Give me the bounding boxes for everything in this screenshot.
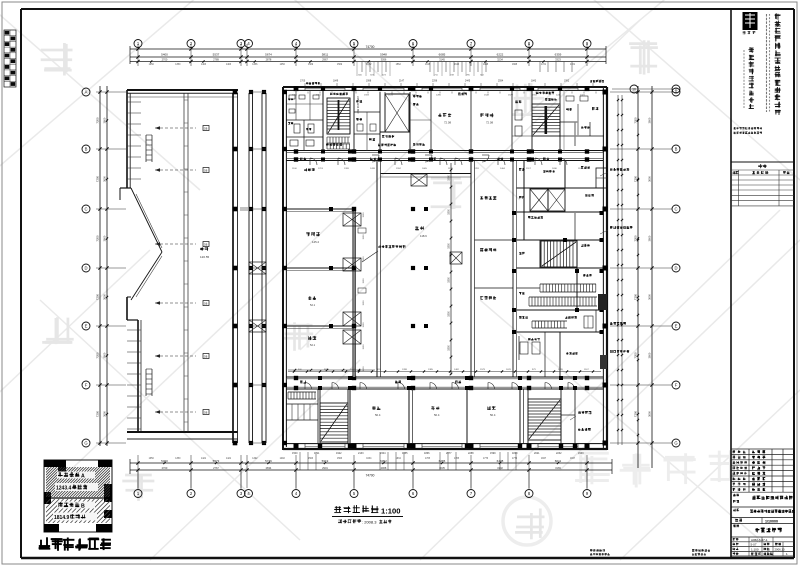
dim chain above corridor B xyxy=(288,369,601,373)
institute name vertical text xyxy=(744,47,754,109)
svg-text:74700: 74700 xyxy=(366,45,375,49)
svg-text:1326: 1326 xyxy=(344,168,350,170)
svg-text:7200: 7200 xyxy=(634,293,638,300)
svg-text:1500: 1500 xyxy=(363,234,365,240)
svg-text:1634: 1634 xyxy=(396,458,402,460)
drawing title cell xyxy=(731,525,794,538)
svg-text:1500: 1500 xyxy=(363,322,365,328)
bottom dimension ticks and numbers xyxy=(136,452,588,488)
svg-text:2767: 2767 xyxy=(213,466,219,470)
svg-text:2344: 2344 xyxy=(380,452,386,455)
svg-text:1776: 1776 xyxy=(512,458,518,460)
svg-text:DB: DB xyxy=(204,244,208,247)
svg-text:1563: 1563 xyxy=(308,458,314,460)
svg-text:2700: 2700 xyxy=(162,466,168,470)
svg-text:1800: 1800 xyxy=(448,345,451,351)
svg-text:3600: 3600 xyxy=(103,411,107,417)
svg-text:1992: 1992 xyxy=(564,81,570,83)
corridor A walls xyxy=(286,151,603,161)
doors corridor A xyxy=(310,155,567,165)
svg-text:1615: 1615 xyxy=(454,64,460,66)
interior dimension chain vertical xyxy=(448,163,453,375)
left wing outer walls xyxy=(120,90,238,439)
svg-text:1213: 1213 xyxy=(318,168,324,170)
svg-text:1404: 1404 xyxy=(500,168,506,170)
svg-text:2700: 2700 xyxy=(162,57,168,61)
svg-text:1855: 1855 xyxy=(412,94,418,96)
svg-text:1241: 1241 xyxy=(556,94,562,96)
dim row under corridor A xyxy=(292,168,583,170)
training rooms east xyxy=(475,161,517,378)
svg-text:1593: 1593 xyxy=(364,94,370,96)
svg-text:1456: 1456 xyxy=(280,64,286,66)
svg-text:1700: 1700 xyxy=(300,81,306,83)
svg-text:B: B xyxy=(675,147,678,152)
svg-text:1094: 1094 xyxy=(350,369,356,371)
svg-text:3102: 3102 xyxy=(497,466,503,470)
svg-text:2834: 2834 xyxy=(266,466,272,470)
svg-text:118.6: 118.6 xyxy=(420,234,427,238)
svg-text:3600: 3600 xyxy=(103,176,107,182)
svg-text:G: G xyxy=(674,441,677,446)
project name cell xyxy=(731,509,795,518)
svg-text:2594: 2594 xyxy=(498,81,504,83)
svg-text:1191: 1191 xyxy=(376,369,381,371)
activity room 2 xyxy=(471,90,512,151)
machine room bottom-right xyxy=(570,411,591,431)
svg-text:7200: 7200 xyxy=(96,410,100,417)
stair S4 east xyxy=(541,241,577,267)
svg-text:3600: 3600 xyxy=(103,235,107,241)
svg-text:2445: 2445 xyxy=(465,81,471,83)
interior leader labels corridor B xyxy=(300,381,461,384)
ac platform blocks on right wall xyxy=(596,168,607,369)
svg-text:1372: 1372 xyxy=(580,94,586,96)
svg-text:1403: 1403 xyxy=(226,64,232,66)
dim text under bottom wall xyxy=(292,452,584,455)
svg-text:5811: 5811 xyxy=(322,53,329,57)
svg-text:5674: 5674 xyxy=(265,53,272,57)
svg-text:1291: 1291 xyxy=(474,168,480,170)
svg-text:1385: 1385 xyxy=(428,369,434,371)
svg-text:1421: 1421 xyxy=(201,458,207,460)
svg-text:72.08: 72.08 xyxy=(444,121,451,125)
svg-text:B: B xyxy=(81,503,85,509)
right dimension chain xyxy=(610,86,672,468)
svg-text:1562: 1562 xyxy=(366,64,372,66)
svg-text:1500: 1500 xyxy=(363,344,365,350)
left wing interior lines xyxy=(127,93,238,432)
svg-text:50.4: 50.4 xyxy=(490,413,496,417)
svg-text:3600: 3600 xyxy=(103,294,107,300)
svg-text:1500: 1500 xyxy=(363,300,365,306)
fire diagram caption xyxy=(39,537,111,551)
svg-text:3600: 3600 xyxy=(648,294,652,300)
stair S1 top-left xyxy=(323,90,360,151)
svg-text:3600: 3600 xyxy=(648,235,652,241)
top band annotation cluster xyxy=(330,93,467,146)
svg-text:1800: 1800 xyxy=(448,277,451,283)
svg-text:1843: 1843 xyxy=(531,81,537,83)
fire zone divider xyxy=(44,497,112,499)
svg-text:1800: 1800 xyxy=(448,175,451,181)
svg-text:1548: 1548 xyxy=(484,94,490,96)
svg-text:1579: 1579 xyxy=(480,369,486,371)
ac platform labels east wall xyxy=(600,168,633,353)
svg-text:2288: 2288 xyxy=(468,452,474,455)
svg-text:1849: 1849 xyxy=(333,81,339,83)
svg-text:6085: 6085 xyxy=(439,53,446,57)
svg-text:2133: 2133 xyxy=(358,452,364,455)
top right corner bubbles xyxy=(612,85,680,93)
svg-text:52.1: 52.1 xyxy=(310,343,316,347)
svg-text:D: D xyxy=(84,266,87,271)
stair S6 bottom-right xyxy=(528,389,575,444)
right inner detail chain xyxy=(617,95,623,445)
svg-text:3600: 3600 xyxy=(648,411,652,417)
company logo xyxy=(743,12,758,34)
bottom axis bubbles xyxy=(134,470,591,498)
svg-text:1100: 1100 xyxy=(292,168,297,170)
svg-text:11: 11 xyxy=(674,88,678,92)
elevator shafts E1 E2 xyxy=(378,92,410,151)
svg-text:E: E xyxy=(675,324,678,329)
svg-text:1552: 1552 xyxy=(396,168,402,170)
svg-text:1482: 1482 xyxy=(454,369,460,371)
window lines top wall xyxy=(305,87,578,90)
svg-text:1509: 1509 xyxy=(337,64,343,66)
company english vertical text xyxy=(767,14,770,112)
stair S2 top-right xyxy=(532,90,604,151)
svg-text:1500: 1500 xyxy=(292,452,298,455)
svg-text:7200: 7200 xyxy=(96,117,100,124)
left axis bubbles xyxy=(82,88,90,447)
svg-text:1350: 1350 xyxy=(175,64,181,66)
svg-text:1167: 1167 xyxy=(584,369,589,371)
doors corridor B xyxy=(305,383,575,390)
svg-text:50.4: 50.4 xyxy=(434,413,440,417)
top band small rooms left xyxy=(286,90,323,151)
fire diagram frame xyxy=(44,460,112,532)
svg-text:120.55: 120.55 xyxy=(200,255,210,259)
company name vertical text xyxy=(775,13,781,115)
personnel table xyxy=(731,449,794,556)
window lines bottom wall xyxy=(305,444,578,449)
classrooms bottom xyxy=(350,389,524,444)
svg-text:B: B xyxy=(85,147,88,152)
svg-text:3234: 3234 xyxy=(497,57,503,61)
svg-text:2878: 2878 xyxy=(266,57,272,61)
garage label xyxy=(200,247,210,259)
svg-text:1847: 1847 xyxy=(541,458,547,460)
left wing distribution boxes xyxy=(203,126,209,415)
svg-text:10: 10 xyxy=(632,88,636,92)
svg-text:1800: 1800 xyxy=(448,243,451,249)
east service zone walls xyxy=(517,122,604,377)
svg-text:2968: 2968 xyxy=(381,466,387,470)
svg-text:2789: 2789 xyxy=(213,57,219,61)
plot stamp 1 xyxy=(590,549,610,556)
svg-text:1634: 1634 xyxy=(366,458,372,460)
svg-text:2967: 2967 xyxy=(322,57,328,61)
svg-text:E: E xyxy=(85,324,88,329)
svg-text:1543: 1543 xyxy=(578,452,584,455)
left margin revision table xyxy=(4,30,16,87)
svg-text:5948: 5948 xyxy=(380,53,387,57)
extra wall columns xyxy=(318,87,577,449)
svg-text:7200: 7200 xyxy=(634,175,638,182)
svg-text:1492: 1492 xyxy=(252,458,258,460)
svg-text:1998: 1998 xyxy=(366,81,372,83)
svg-text:2232: 2232 xyxy=(556,452,562,455)
svg-text:1331: 1331 xyxy=(316,94,322,96)
svg-text:1:100: 1:100 xyxy=(751,547,759,551)
top dimension ticks and numbers xyxy=(136,44,588,77)
svg-text:1456: 1456 xyxy=(252,64,258,66)
svg-text:C: C xyxy=(674,207,677,212)
bottom dimension chain lines xyxy=(130,459,612,474)
svg-text:C: C xyxy=(84,207,87,212)
rehearsal hall west xyxy=(286,161,381,378)
svg-text:5400: 5400 xyxy=(161,53,168,57)
svg-text:1705: 1705 xyxy=(425,458,431,460)
svg-text:1776: 1776 xyxy=(483,458,489,460)
svg-text:1721: 1721 xyxy=(570,64,576,66)
fire diagram black corner blocks xyxy=(44,460,112,532)
dance room center xyxy=(381,161,475,378)
svg-text:1439: 1439 xyxy=(370,168,376,170)
svg-text:1286: 1286 xyxy=(436,94,442,96)
svg-text:1676: 1676 xyxy=(506,369,512,371)
svg-text:3600: 3600 xyxy=(648,176,652,182)
svg-text:1563: 1563 xyxy=(337,458,343,460)
svg-text:: 2008.3: : 2008.3 xyxy=(362,520,377,525)
left wing ladders xyxy=(146,135,152,396)
svg-text:DB: DB xyxy=(204,170,208,173)
svg-text:1655: 1655 xyxy=(402,452,408,455)
svg-text:1070: 1070 xyxy=(558,369,564,371)
elevators east pair xyxy=(530,189,565,211)
svg-text:1143: 1143 xyxy=(578,168,583,170)
svg-text:145.2: 145.2 xyxy=(312,240,319,244)
svg-text:1810: 1810 xyxy=(532,94,538,96)
svg-text:1350: 1350 xyxy=(149,64,155,66)
top dimension chain lines xyxy=(130,46,606,64)
svg-text:D: D xyxy=(674,266,677,271)
svg-text:2296: 2296 xyxy=(432,81,438,83)
svg-text:6222: 6222 xyxy=(497,53,504,57)
toilet fixtures comb east xyxy=(512,211,604,334)
svg-text:1500: 1500 xyxy=(363,256,365,262)
svg-text:1417: 1417 xyxy=(460,94,466,96)
svg-text:3456 1234 890: 3456 1234 890 xyxy=(356,96,360,114)
svg-text:1800: 1800 xyxy=(448,209,451,215)
svg-text:1509: 1509 xyxy=(308,64,314,66)
svg-text:50.4: 50.4 xyxy=(375,413,381,417)
east zone small annotations xyxy=(519,166,596,377)
piano teaching label with leader xyxy=(362,245,405,262)
drawing number rows xyxy=(731,537,794,556)
svg-text:1810: 1810 xyxy=(512,452,518,455)
svg-text:7200: 7200 xyxy=(634,117,638,124)
svg-text:2021: 2021 xyxy=(534,452,540,455)
svg-text:1922: 1922 xyxy=(336,452,342,455)
svg-text:7200: 7200 xyxy=(634,352,638,359)
interior leader labels corridor A xyxy=(300,143,549,160)
svg-text:F: F xyxy=(85,383,88,388)
svg-text:3145: 3145 xyxy=(439,57,445,61)
walkway walls xyxy=(233,93,266,443)
svg-text:1500: 1500 xyxy=(363,366,365,372)
top band small rooms right xyxy=(512,90,557,151)
svg-text:1/10000: 1/10000 xyxy=(765,520,778,524)
fire zone A hatch xyxy=(16,467,141,497)
main block exterior walls xyxy=(283,87,607,450)
svg-text:72.08: 72.08 xyxy=(486,121,493,125)
dim row under top wall xyxy=(292,92,596,97)
svg-text:7200: 7200 xyxy=(634,410,638,417)
svg-text:1668: 1668 xyxy=(512,64,518,66)
svg-text:3056: 3056 xyxy=(381,57,387,61)
svg-text:7200: 7200 xyxy=(96,293,100,300)
svg-text:1350: 1350 xyxy=(175,458,181,460)
svg-text:1866: 1866 xyxy=(424,452,430,455)
svg-text:1178: 1178 xyxy=(448,168,453,170)
svg-text:DB: DB xyxy=(204,356,208,359)
svg-text:1243.4: 1243.4 xyxy=(56,486,72,492)
corridor columns xyxy=(283,86,608,448)
svg-text:3600: 3600 xyxy=(103,117,107,123)
svg-text:1562: 1562 xyxy=(396,64,402,66)
svg-text:1705: 1705 xyxy=(454,458,460,460)
svg-text:1847: 1847 xyxy=(570,458,576,460)
svg-text:5537: 5537 xyxy=(213,53,220,57)
svg-text:DB: DB xyxy=(204,303,208,306)
svg-text:3600: 3600 xyxy=(103,352,107,358)
svg-text:1630: 1630 xyxy=(552,168,558,170)
svg-text:1288: 1288 xyxy=(402,369,408,371)
svg-text:1500: 1500 xyxy=(363,212,365,218)
svg-text:1200: 1200 xyxy=(292,94,298,96)
fire zone B hatch xyxy=(22,499,138,523)
double doors with x xyxy=(343,174,462,344)
svg-text:7200: 7200 xyxy=(96,352,100,359)
svg-text:DB: DB xyxy=(204,412,208,415)
svg-text:3169: 3169 xyxy=(555,466,561,470)
svg-text:A: A xyxy=(85,90,88,95)
svg-text:1665: 1665 xyxy=(422,168,428,170)
svg-text:2901: 2901 xyxy=(322,466,328,470)
right axis bubbles xyxy=(672,88,680,447)
svg-text:2077: 2077 xyxy=(446,452,452,455)
plot stamp 2 xyxy=(692,549,710,556)
svg-text:1599: 1599 xyxy=(490,452,496,455)
svg-text:1800: 1800 xyxy=(448,311,451,317)
svg-text:1814.9: 1814.9 xyxy=(54,515,70,521)
svg-text:1711: 1711 xyxy=(314,452,320,455)
toilet block bottom-left xyxy=(286,389,318,444)
svg-text:74700: 74700 xyxy=(366,474,375,478)
svg-text:2006.10: 2006.10 xyxy=(775,547,786,551)
svg-text:5-07: 5-07 xyxy=(751,543,757,547)
client name cell xyxy=(731,494,794,507)
svg-text:A: A xyxy=(81,473,85,479)
svg-text:DB: DB xyxy=(204,128,208,131)
svg-text:1500: 1500 xyxy=(363,278,365,284)
svg-text:A06(H)-07-1: A06(H)-07-1 xyxy=(751,538,768,542)
interior dimension chain horizontal mid xyxy=(288,369,375,371)
dim row above top wall xyxy=(300,80,604,87)
left wing window ticks xyxy=(127,100,188,429)
svg-text:7200: 7200 xyxy=(96,175,100,182)
top axis bubbles xyxy=(134,40,591,48)
left dimension chain xyxy=(96,86,127,446)
svg-text:F: F xyxy=(675,383,678,388)
svg-text:52.1: 52.1 xyxy=(310,303,316,307)
svg-text:7200: 7200 xyxy=(96,235,100,242)
walkway door boxes xyxy=(240,208,266,332)
svg-text:1721: 1721 xyxy=(541,64,547,66)
svg-text:1517: 1517 xyxy=(526,168,532,170)
signature table xyxy=(731,162,794,206)
title block divider xyxy=(730,9,732,558)
svg-text:1350: 1350 xyxy=(149,458,155,460)
svg-text:3600: 3600 xyxy=(648,117,652,123)
drawing caption xyxy=(332,505,403,525)
svg-text:6359: 6359 xyxy=(555,53,562,57)
svg-text:1724: 1724 xyxy=(388,94,394,96)
sub item row xyxy=(731,518,794,524)
dim stubs along west corridor wall xyxy=(363,212,365,372)
address text block xyxy=(734,127,762,134)
left wing ramp edge xyxy=(127,188,162,300)
svg-text:3600: 3600 xyxy=(648,352,652,358)
corridor B walls xyxy=(286,377,603,389)
activity room 1 xyxy=(410,90,451,151)
svg-text:1679: 1679 xyxy=(508,94,514,96)
svg-text:1492: 1492 xyxy=(280,458,286,460)
svg-text:2147: 2147 xyxy=(399,81,405,83)
left wing slope arrows xyxy=(155,126,196,414)
svg-text:3323: 3323 xyxy=(555,57,561,61)
small lobby xyxy=(354,100,380,151)
svg-text:1:100: 1:100 xyxy=(381,507,400,516)
svg-text:G: G xyxy=(84,441,87,446)
svg-text:1403: 1403 xyxy=(201,64,207,66)
svg-text:1421: 1421 xyxy=(226,458,232,460)
walkway columns xyxy=(233,90,266,446)
stair S5 bottom-left xyxy=(320,389,348,444)
